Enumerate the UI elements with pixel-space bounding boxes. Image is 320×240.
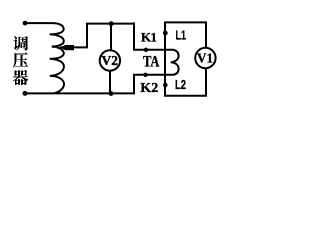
voltmeter V2 circle [100,50,120,70]
label 调 of 调压器 [13,36,28,51]
wire: V2 bottom lead [109,71,111,93]
svg-text:L1: L1 [176,29,187,43]
voltmeter V1 circle [195,48,215,68]
junction node: bottom rail / V2 [109,91,114,96]
polarity dot near L2 [163,83,168,88]
wiper arrow wire to top rail [60,24,135,48]
label 器 of 调压器 [13,70,28,85]
svg-text:V2: V2 [102,54,119,69]
current transformer TA secondary winding K1-K2 [134,22,179,94]
wire: top-left from input terminal to variac winding [25,22,54,24]
input terminal dot bottom-left [23,91,28,96]
wire: L1 to voltmeter V1 [164,22,206,47]
polarity dot near K1 [144,48,148,52]
wiper arrowhead of variac [60,45,74,50]
wire: V2 top lead [110,24,112,51]
svg-text:L2: L2 [175,78,186,92]
wire: L2 to voltmeter V1 [164,68,206,95]
polarity dot near L1 [163,31,168,36]
svg-text:TA: TA [143,53,160,70]
polarity dot near K2 [143,73,147,77]
variac winding T1 [50,23,64,93]
svg-text:K2: K2 [140,81,158,96]
svg-text:V1: V1 [197,52,213,67]
svg-text:K1: K1 [141,29,157,44]
current transformer TA primary bar L1-L2 [164,22,166,95]
wire: bottom rail [25,92,135,94]
label 压 of 调压器 [13,53,28,68]
input terminal dot top-left [23,21,28,26]
junction node: top rail / V2 [109,21,114,26]
